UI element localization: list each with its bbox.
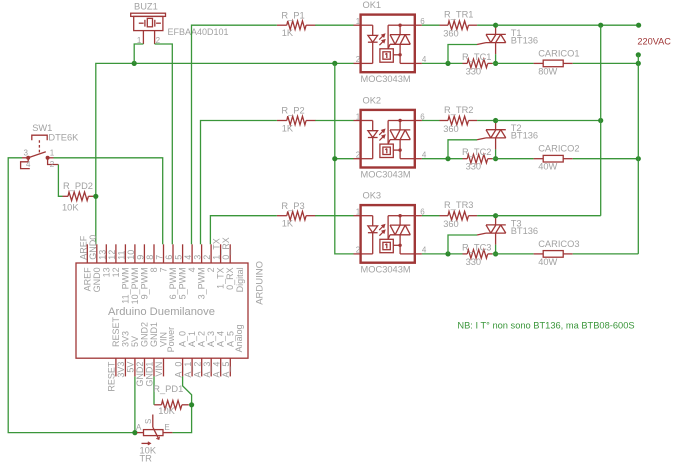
svg-text:1: 1 bbox=[50, 149, 55, 158]
junction neutral ch2 bbox=[636, 156, 641, 161]
pin 1 label (OK2) bbox=[356, 112, 361, 121]
svg-text:A_2: A_2 bbox=[192, 362, 202, 378]
svg-text:2: 2 bbox=[356, 246, 361, 255]
svg-text:5_PWM: 5_PWM bbox=[178, 267, 188, 299]
pin 1 label (OK3) bbox=[356, 208, 361, 217]
junction R_PD1-A_0 bbox=[189, 402, 194, 407]
svg-text:Power: Power bbox=[166, 327, 176, 353]
label R_TC2 bbox=[462, 147, 491, 157]
wire gate T2 bbox=[448, 140, 477, 159]
value 1K (R_P1) bbox=[282, 28, 294, 38]
resistor R_P1 bbox=[277, 21, 316, 30]
resistor R_TC1 bbox=[463, 59, 493, 68]
svg-text:6: 6 bbox=[164, 255, 174, 260]
label CARICO3 bbox=[538, 239, 579, 249]
svg-text:10K: 10K bbox=[62, 203, 79, 213]
label TR bbox=[140, 453, 153, 463]
svg-text:R_PD1: R_PD1 bbox=[153, 384, 183, 394]
svg-text:3_PWM: 3_PWM bbox=[197, 267, 207, 299]
label R_PD2 bbox=[63, 181, 93, 191]
svg-text:SW1: SW1 bbox=[32, 123, 52, 133]
svg-text:40W: 40W bbox=[538, 162, 557, 172]
svg-text:R_TC2: R_TC2 bbox=[462, 147, 491, 157]
label CARICO2 bbox=[538, 144, 579, 154]
wire R_TR1 to T1 bbox=[477, 24, 496, 26]
svg-text:3: 3 bbox=[24, 149, 29, 158]
wire R_TC2 to CARICO2 bbox=[492, 158, 533, 160]
wire pin to R_P1 bbox=[192, 25, 277, 244]
junction T3 MT1 bbox=[493, 251, 498, 256]
label SW1 bbox=[32, 123, 52, 133]
svg-text:OK2: OK2 bbox=[363, 96, 382, 106]
wire buzzer pin2 to pin 6 bbox=[155, 44, 173, 244]
wire OK1 pin6 to R_TR1 bbox=[422, 24, 440, 26]
wire A_0 to R_PD1 and trimmer E bbox=[172, 376, 191, 432]
wire R_TR2 to T2 bbox=[477, 120, 496, 122]
svg-text:EFBAA40D101: EFBAA40D101 bbox=[168, 27, 229, 37]
svg-text:RESET: RESET bbox=[107, 361, 117, 392]
svg-text:CARICO1: CARICO1 bbox=[538, 48, 579, 58]
svg-text:360: 360 bbox=[443, 29, 459, 39]
svg-text:A_3: A_3 bbox=[202, 362, 212, 378]
value 360 (R_TR2) bbox=[443, 124, 459, 134]
svg-text:OK3: OK3 bbox=[363, 191, 382, 201]
svg-text:AREF: AREF bbox=[82, 267, 92, 292]
wire SW1 pin3 to 5V rail bbox=[8, 158, 137, 433]
svg-text:3V3: 3V3 bbox=[120, 331, 130, 347]
terminal 220VAC line bbox=[636, 23, 641, 28]
svg-text:S: S bbox=[144, 419, 153, 424]
svg-text:1: 1 bbox=[356, 208, 361, 217]
load CARICO3 bbox=[534, 251, 573, 258]
value 80W (CARICO1) bbox=[538, 66, 557, 76]
wire R_P2 to OK2 bbox=[315, 120, 353, 122]
svg-text:220VAC: 220VAC bbox=[637, 37, 671, 47]
label BUZ1 bbox=[134, 2, 158, 12]
label R_P2 bbox=[281, 106, 304, 116]
svg-text:13: 13 bbox=[101, 267, 111, 277]
opto-triac OK2 bbox=[354, 110, 422, 168]
resistor R_P2 bbox=[277, 116, 316, 125]
wire SW1 pin2 to R_PD2 bbox=[58, 165, 62, 197]
svg-text:R_TR2: R_TR2 bbox=[444, 105, 473, 115]
wire R_P3 to OK3 bbox=[315, 215, 353, 217]
value 330 (R_TC3) bbox=[466, 257, 482, 267]
wire ch2 top to MT2 rail bbox=[496, 120, 601, 122]
svg-text:AREF: AREF bbox=[78, 235, 88, 260]
svg-text:R_P1: R_P1 bbox=[281, 10, 304, 20]
svg-text:R_P3: R_P3 bbox=[281, 201, 304, 211]
junction 5V-rail bbox=[132, 430, 137, 435]
svg-text:12: 12 bbox=[111, 267, 121, 277]
wire T2 MT1 bbox=[495, 149, 497, 158]
svg-text:8: 8 bbox=[145, 255, 155, 260]
wire R_TC1 to CARICO1 bbox=[492, 62, 533, 64]
svg-text:BT136: BT136 bbox=[511, 226, 538, 236]
junction MT2 rail top bbox=[598, 23, 603, 28]
svg-text:1K: 1K bbox=[282, 28, 294, 38]
svg-text:360: 360 bbox=[443, 124, 459, 134]
svg-text:10_PWM: 10_PWM bbox=[130, 267, 140, 304]
svg-text:Digital: Digital bbox=[235, 267, 245, 292]
pin E label (TR) bbox=[164, 423, 169, 432]
wire buzzer pin1 bbox=[134, 44, 143, 63]
svg-text:R_TC1: R_TC1 bbox=[462, 52, 491, 62]
svg-text:4: 4 bbox=[183, 255, 193, 260]
junction MT2 rail ch2 bbox=[598, 118, 603, 123]
label T3 bbox=[511, 218, 522, 228]
label R_TC3 bbox=[462, 242, 491, 252]
label 220VAC bbox=[637, 37, 671, 47]
wire gate T3 bbox=[448, 235, 477, 254]
opto-triac OK3 bbox=[354, 205, 422, 263]
resistor R_P3 bbox=[277, 211, 316, 220]
value EFBAA40D101 bbox=[168, 27, 229, 37]
value 1K (R_P3) bbox=[282, 219, 294, 229]
svg-text:13: 13 bbox=[97, 250, 107, 260]
wire CARICO1 to neutral bbox=[573, 62, 639, 64]
wire GND1 to R_PD1 bbox=[153, 376, 155, 404]
value 40W (CARICO3) bbox=[538, 257, 557, 267]
pin 1 label (BUZ1) bbox=[137, 36, 142, 45]
note NB bbox=[457, 321, 634, 331]
svg-text:360: 360 bbox=[443, 219, 459, 229]
svg-text:10: 10 bbox=[126, 250, 136, 260]
wire R_TC3 to CARICO3 bbox=[492, 253, 533, 255]
junction R_PD2-GND0 bbox=[93, 194, 98, 199]
triac T1 bbox=[477, 26, 506, 54]
resistor R_TR3 bbox=[440, 211, 478, 220]
svg-text:4: 4 bbox=[26, 160, 31, 169]
svg-text:1: 1 bbox=[356, 17, 361, 26]
label R_P1 bbox=[281, 10, 304, 20]
junction gate branch 1 bbox=[445, 61, 450, 66]
svg-text:Arduino Duemilanove: Arduino Duemilanove bbox=[108, 306, 215, 318]
pin S label (TR) bbox=[144, 419, 153, 424]
svg-text:6_PWM: 6_PWM bbox=[168, 267, 178, 299]
value 10K (R_PD2) bbox=[62, 203, 79, 213]
value 330 (R_TC2) bbox=[466, 162, 482, 172]
label Arduino Duemilanove bbox=[108, 306, 215, 318]
value MOC3043M (OK1) bbox=[361, 74, 411, 84]
Arduino bottom pin stubs bbox=[116, 358, 230, 376]
pin A label (TR) bbox=[136, 423, 142, 432]
wire ground to OK2 pin2 bbox=[335, 158, 354, 160]
svg-text:R_TC3: R_TC3 bbox=[462, 242, 491, 252]
wire T1 MT1 bbox=[495, 54, 497, 63]
value DTE6K bbox=[48, 133, 79, 143]
wire OK3 pin6 to R_TR3 bbox=[422, 215, 440, 217]
pin 4 label (OK2) bbox=[422, 151, 427, 160]
wire pin to R_P3 bbox=[210, 216, 277, 245]
pin 4 label (OK1) bbox=[422, 55, 427, 64]
svg-text:A_4: A_4 bbox=[211, 362, 221, 378]
wire GND0 rail (buzzer row) bbox=[96, 63, 354, 244]
svg-text:BUZ1: BUZ1 bbox=[134, 2, 158, 12]
label Power bbox=[166, 327, 176, 353]
Arduino bottom pin outside labels bbox=[107, 361, 231, 392]
wire R_TR3 to T3 bbox=[477, 215, 496, 217]
label R_TR1 bbox=[444, 10, 473, 20]
svg-text:GND2: GND2 bbox=[140, 322, 150, 347]
svg-text:E: E bbox=[164, 423, 169, 432]
svg-text:A_1: A_1 bbox=[183, 362, 193, 378]
svg-text:11_PWM: 11_PWM bbox=[120, 267, 130, 303]
resistor R_PD2 bbox=[63, 192, 94, 201]
pin 1 label (SW1) bbox=[50, 149, 55, 158]
svg-text:11: 11 bbox=[116, 250, 126, 259]
value BT136 (T2) bbox=[511, 131, 538, 141]
wire gate T1 bbox=[448, 45, 477, 64]
svg-text:5: 5 bbox=[174, 255, 184, 260]
value 10K (R_PD1) bbox=[158, 406, 175, 416]
svg-text:A_0: A_0 bbox=[178, 331, 188, 347]
svg-text:330: 330 bbox=[466, 162, 482, 172]
label OK1 bbox=[363, 0, 382, 10]
opto-triac OK1 bbox=[354, 15, 422, 73]
wire ground branch to OK2/OK3 bbox=[335, 63, 354, 254]
wire OK2 pin4 to R_TC2 bbox=[422, 158, 463, 160]
label R_TR2 bbox=[444, 105, 473, 115]
svg-text:A_2: A_2 bbox=[197, 331, 207, 347]
value 40W (CARICO2) bbox=[538, 162, 557, 172]
Arduino top pin stubs bbox=[87, 244, 230, 263]
wire OK3 pin4 to R_TC3 bbox=[422, 253, 463, 255]
svg-text:MOC3043M: MOC3043M bbox=[361, 169, 411, 179]
svg-text:0_RX: 0_RX bbox=[225, 267, 235, 290]
label CARICO1 bbox=[538, 48, 579, 58]
wire 5V down bbox=[134, 376, 136, 432]
pin 2 label (OK1) bbox=[356, 55, 361, 64]
svg-text:12: 12 bbox=[107, 250, 117, 260]
svg-text:OK1: OK1 bbox=[363, 0, 382, 10]
junction gate branch 3 bbox=[445, 251, 450, 256]
label R_TR3 bbox=[444, 200, 473, 210]
svg-text:A_5: A_5 bbox=[221, 362, 231, 378]
svg-text:5V: 5V bbox=[130, 336, 140, 347]
svg-text:0_RX: 0_RX bbox=[221, 237, 231, 260]
wire MT2 rail bbox=[600, 25, 602, 216]
label R_PD1 bbox=[153, 384, 183, 394]
label R_P3 bbox=[281, 201, 304, 211]
svg-text:9: 9 bbox=[135, 255, 145, 260]
value BT136 (T1) bbox=[511, 35, 538, 45]
svg-text:2: 2 bbox=[202, 255, 212, 260]
triac T3 bbox=[477, 217, 506, 245]
label T1 bbox=[511, 28, 522, 38]
value 330 (R_TC1) bbox=[466, 66, 482, 76]
wire ch3 top to MT2 rail bbox=[496, 215, 601, 217]
svg-text:2: 2 bbox=[356, 151, 361, 160]
svg-text:1_TX: 1_TX bbox=[212, 238, 222, 260]
label T2 bbox=[511, 123, 522, 133]
wire SW1 pin1 to pin 7 bbox=[54, 158, 163, 245]
svg-text:CARICO3: CARICO3 bbox=[538, 239, 579, 249]
svg-text:GND1: GND1 bbox=[145, 362, 155, 387]
svg-text:80W: 80W bbox=[538, 66, 557, 76]
load CARICO2 bbox=[534, 155, 573, 162]
wire CARICO3 to neutral bbox=[573, 253, 639, 255]
junction T2 MT1 bbox=[493, 156, 498, 161]
junction T1 MT2 bbox=[493, 23, 498, 28]
value 360 (R_TR1) bbox=[443, 29, 459, 39]
svg-text:A_3: A_3 bbox=[206, 331, 216, 347]
trimmer TR 10K bbox=[137, 415, 172, 445]
pin 2 label (OK3) bbox=[356, 246, 361, 255]
svg-text:Analog: Analog bbox=[234, 324, 244, 352]
value MOC3043M (OK3) bbox=[361, 265, 411, 275]
pin 4 label (SW1) bbox=[26, 160, 31, 169]
junction neutral ch1 bbox=[636, 61, 641, 66]
svg-text:GND1: GND1 bbox=[149, 322, 159, 347]
resistor R_TC2 bbox=[463, 154, 493, 163]
wire CARICO2 to neutral bbox=[573, 158, 639, 160]
value BT136 (T3) bbox=[511, 226, 538, 236]
svg-text:BT136: BT136 bbox=[511, 35, 538, 45]
pin 6 label (OK2) bbox=[420, 112, 425, 121]
junction T2 MT2 bbox=[493, 118, 498, 123]
svg-text:ARDUINO: ARDUINO bbox=[254, 261, 265, 305]
svg-text:R_TR1: R_TR1 bbox=[444, 10, 473, 20]
pin 6 label (OK1) bbox=[420, 17, 425, 26]
svg-text:TR: TR bbox=[140, 453, 153, 463]
Arduino board outline U1 bbox=[76, 263, 248, 358]
wire T3 MT1 bbox=[495, 245, 497, 254]
junction T3 MT2 bbox=[493, 213, 498, 218]
junction gate branch 2 bbox=[445, 156, 450, 161]
svg-text:MOC3043M: MOC3043M bbox=[361, 74, 411, 84]
junction buzzer bbox=[132, 61, 137, 66]
pin 2 label (OK2) bbox=[356, 151, 361, 160]
svg-text:A_4: A_4 bbox=[216, 331, 226, 347]
label ARDUINO bbox=[254, 261, 265, 305]
switch SW1 bbox=[21, 135, 59, 168]
svg-text:1_TX: 1_TX bbox=[216, 267, 226, 289]
svg-text:7: 7 bbox=[155, 255, 165, 260]
pin 1 label (OK1) bbox=[356, 17, 361, 26]
pin 6 label (OK3) bbox=[420, 208, 425, 217]
svg-text:5V: 5V bbox=[126, 362, 136, 373]
svg-text:1: 1 bbox=[356, 112, 361, 121]
pin 4 label (OK3) bbox=[422, 246, 427, 255]
wire top row to 220VAC bbox=[496, 24, 639, 26]
wire R_P1 to OK1 bbox=[315, 24, 353, 26]
label OK2 bbox=[363, 96, 382, 106]
svg-text:RESET: RESET bbox=[111, 316, 121, 347]
wire neutral rail bbox=[637, 55, 639, 254]
value 1K (R_P2) bbox=[282, 123, 294, 133]
svg-text:40W: 40W bbox=[538, 257, 557, 267]
junction ground branch bbox=[332, 61, 337, 66]
wire pin to R_P2 bbox=[201, 121, 277, 245]
svg-text:1K: 1K bbox=[282, 219, 294, 229]
svg-text:R_TR3: R_TR3 bbox=[444, 200, 473, 210]
pin 2 label (SW1) bbox=[50, 160, 55, 169]
terminal 220VAC neutral bbox=[636, 52, 641, 57]
label Digital bbox=[235, 267, 245, 292]
svg-text:8: 8 bbox=[149, 267, 159, 272]
svg-text:GND0: GND0 bbox=[88, 235, 98, 260]
svg-text:DTE6K: DTE6K bbox=[48, 133, 79, 143]
svg-text:3V3: 3V3 bbox=[116, 362, 126, 378]
svg-text:7: 7 bbox=[159, 267, 169, 272]
value 10K (TR) bbox=[140, 446, 157, 456]
load CARICO1 bbox=[534, 60, 573, 67]
svg-text:330: 330 bbox=[466, 257, 482, 267]
svg-text:10K: 10K bbox=[158, 406, 175, 416]
svg-text:GND2: GND2 bbox=[135, 362, 145, 387]
svg-text:1K: 1K bbox=[282, 123, 294, 133]
svg-text:A_1: A_1 bbox=[187, 331, 197, 347]
svg-text:NB: I T° non sono BT136, ma BT: NB: I T° non sono BT136, ma BTB08-600S bbox=[457, 321, 634, 331]
label Analog bbox=[234, 324, 244, 352]
svg-text:330: 330 bbox=[466, 66, 482, 76]
svg-text:R_PD2: R_PD2 bbox=[63, 181, 93, 191]
Arduino bottom pin inside labels bbox=[111, 316, 235, 347]
value 360 (R_TR3) bbox=[443, 219, 459, 229]
svg-text:A_0: A_0 bbox=[173, 362, 183, 378]
label R_TC1 bbox=[462, 52, 491, 62]
svg-text:R_P2: R_P2 bbox=[281, 106, 304, 116]
Arduino top pin inside labels bbox=[82, 267, 235, 305]
value MOC3043M (OK2) bbox=[361, 169, 411, 179]
junction ground-OK2 bbox=[332, 156, 337, 161]
svg-text:9_PWM: 9_PWM bbox=[139, 267, 149, 299]
Arduino top pin outside labels bbox=[78, 235, 231, 260]
buzzer BUZ1 bbox=[131, 13, 166, 44]
svg-text:3: 3 bbox=[193, 255, 203, 260]
junction T1 MT1 bbox=[493, 61, 498, 66]
resistor R_TR1 bbox=[440, 21, 478, 30]
svg-text:4: 4 bbox=[187, 267, 197, 272]
svg-text:VIN: VIN bbox=[154, 362, 164, 377]
svg-text:CARICO2: CARICO2 bbox=[538, 144, 579, 154]
resistor R_TR2 bbox=[440, 116, 478, 125]
label OK3 bbox=[363, 191, 382, 201]
wire OK2 pin6 to R_TR2 bbox=[422, 120, 440, 122]
pin 2 label (BUZ1) bbox=[156, 36, 161, 45]
resistor R_PD1 bbox=[154, 401, 189, 410]
svg-text:2: 2 bbox=[206, 267, 216, 272]
pin 3 label (SW1) bbox=[24, 149, 29, 158]
svg-text:A: A bbox=[136, 423, 142, 432]
svg-text:MOC3043M: MOC3043M bbox=[361, 265, 411, 275]
triac T2 bbox=[477, 122, 506, 150]
svg-text:2: 2 bbox=[356, 55, 361, 64]
svg-text:BT136: BT136 bbox=[511, 131, 538, 141]
wire OK1 pin4 to R_TC1 bbox=[422, 62, 463, 64]
svg-text:2: 2 bbox=[50, 160, 55, 169]
svg-text:GND0: GND0 bbox=[92, 267, 102, 292]
resistor R_TC3 bbox=[463, 250, 493, 259]
